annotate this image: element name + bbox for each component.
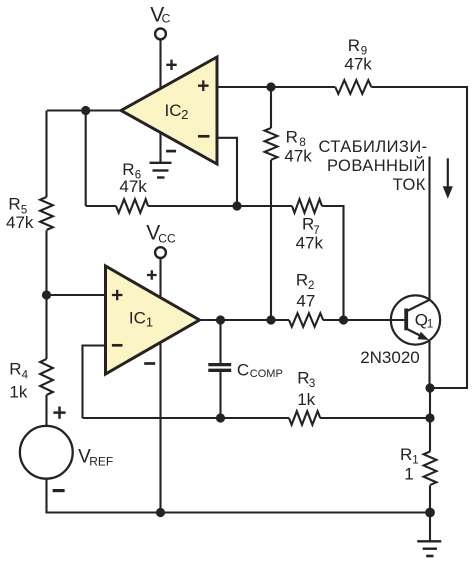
- svg-text:2: 2: [181, 107, 188, 122]
- svg-text:47k: 47k: [344, 54, 372, 73]
- svg-text:R: R: [400, 445, 412, 464]
- svg-text:R: R: [8, 195, 20, 214]
- svg-text:R: R: [297, 368, 309, 387]
- svg-text:1: 1: [146, 315, 153, 330]
- svg-text:REF: REF: [89, 455, 113, 469]
- svg-text:1: 1: [404, 465, 413, 484]
- svg-text:47k: 47k: [6, 213, 34, 232]
- svg-text:1k: 1k: [9, 382, 27, 401]
- svg-text:47k: 47k: [119, 177, 147, 196]
- svg-text:3: 3: [309, 378, 315, 390]
- svg-text:47k: 47k: [296, 233, 324, 252]
- svg-text:R: R: [296, 270, 308, 289]
- svg-text:R: R: [286, 128, 298, 147]
- svg-text:CC: CC: [158, 232, 176, 246]
- svg-text:R: R: [9, 360, 21, 379]
- svg-text:РОВАННЫЙ: РОВАННЫЙ: [327, 156, 426, 175]
- svg-text:1k: 1k: [297, 390, 315, 409]
- svg-text:IC: IC: [129, 308, 146, 327]
- svg-text:47k: 47k: [284, 147, 312, 166]
- svg-text:COMP: COMP: [250, 368, 283, 380]
- svg-text:IC: IC: [165, 101, 182, 120]
- svg-text:2N3020: 2N3020: [360, 348, 420, 367]
- svg-text:4: 4: [22, 369, 29, 381]
- svg-text:47: 47: [296, 291, 315, 310]
- svg-text:1: 1: [427, 319, 433, 331]
- svg-text:ТОК: ТОК: [393, 176, 426, 194]
- svg-text:СТАБИЛИЗИ-: СТАБИЛИЗИ-: [318, 138, 427, 156]
- svg-text:R: R: [348, 36, 360, 55]
- svg-text:C: C: [162, 12, 171, 26]
- svg-text:C: C: [237, 361, 249, 380]
